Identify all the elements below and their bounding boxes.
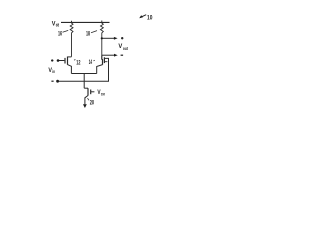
svg-text:20: 20 [90, 100, 95, 106]
svg-text:16: 16 [58, 32, 62, 38]
svg-text:con: con [101, 91, 105, 96]
svg-text:10: 10 [147, 14, 153, 21]
svg-text:out: out [123, 46, 128, 51]
svg-text:in: in [52, 69, 55, 74]
svg-text:12: 12 [76, 60, 81, 66]
svg-text:14: 14 [89, 60, 93, 66]
svg-text:18: 18 [86, 32, 90, 38]
svg-text:dd: dd [56, 22, 59, 27]
